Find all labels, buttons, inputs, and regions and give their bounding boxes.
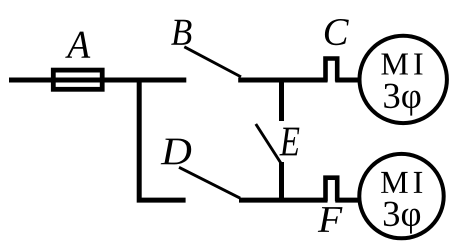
wire: switch B pivot to overload C [238,78,327,83]
label F [318,207,343,232]
switch E upper terminal wire [279,80,284,121]
motor M1 text MI [381,54,422,75]
label C [325,19,349,45]
motor M1 text 3phi [384,84,420,116]
label D [161,139,192,165]
label A [65,32,90,58]
fuse A [53,70,102,89]
wire: main feed from left edge through fuse A to switch B left contact [9,78,186,83]
switch E blade [256,124,282,165]
wire: switch D pivot to overload F [239,198,328,203]
motor M2 text 3phi [384,202,420,234]
switch E lower terminal wire [279,162,284,200]
switch D blade [179,167,240,198]
motor M2 circle [359,154,443,238]
overload element C (bump) [326,59,338,82]
label B [171,20,191,45]
switch B blade [184,47,241,77]
wire: overload F to motor M2 [335,198,359,203]
wire: junction drop from main feed down to lower branch stub for switch D [139,80,185,200]
label E [279,128,299,156]
motor M1 circle [360,36,447,123]
overload element F (bump) [326,178,338,202]
wire: overload C to motor M1 [335,78,360,83]
motor M2 text MI [381,172,422,193]
